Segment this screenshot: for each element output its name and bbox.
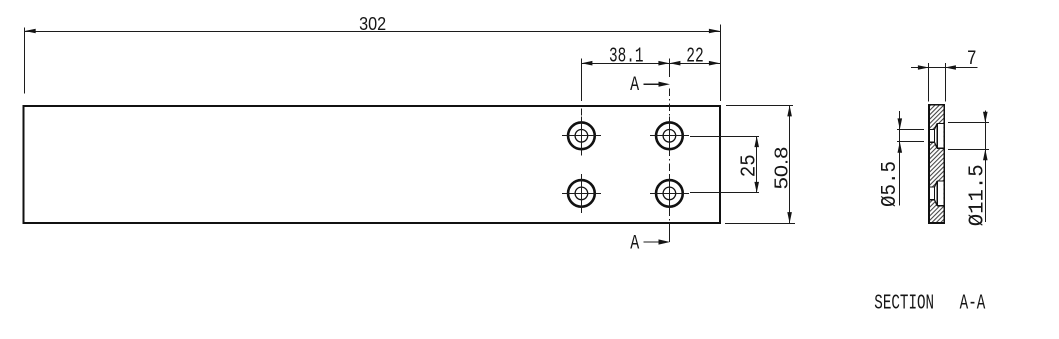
section plate hatched material (929, 105, 944, 223)
dimension 50.8: dimension line (789, 105, 791, 223)
dimension 7: arrowheads (outside) (918, 65, 929, 70)
dimension 302: left arrowhead (25, 29, 36, 34)
svg-text:SECTION A-A: SECTION A-A (874, 291, 985, 315)
svg-text:Ø11.5: Ø11.5 (965, 164, 989, 226)
dimension 50.8: arrowheads (787, 105, 792, 116)
dimension 302: dimension line (25, 31, 720, 33)
section plate outline (929, 105, 944, 223)
dimension &#216;5.5: upper extension line (897, 129, 924, 131)
dimension 22: left arrowhead (669, 61, 680, 66)
svg-text:A: A (630, 74, 639, 97)
section arrow (top) leader (643, 83, 661, 85)
dimension 7: dimension line (911, 67, 978, 69)
hole top-left inner circle (&#216;5.5) (575, 130, 588, 143)
dimension 25: upper extension line (690, 136, 759, 138)
hole bottom-right inner circle (&#216;5.5) (663, 187, 676, 200)
section upper countersunk hole (930, 123, 943, 148)
svg-text:50.8: 50.8 (771, 147, 791, 190)
dimension &#216;11.5: dimension/leader line (985, 111, 987, 223)
section lower countersunk hole (930, 181, 943, 206)
dimension 38.1: left arrowhead (581, 61, 592, 66)
dimension &#216;5.5: arrowheads (outside) (898, 118, 903, 129)
dimension 302: right arrowhead (709, 29, 720, 34)
centreline lower solid tail (669, 230, 671, 242)
dimension 302: left extension line (24, 27, 26, 93)
dimension 7: left extension line (928, 63, 930, 102)
extension segment at right hole centreline (669, 59, 671, 77)
hole bottom-left inner circle (&#216;5.5) (575, 187, 588, 200)
dimension &#216;11.5: arrowheads (outside) (983, 112, 988, 123)
hole bottom-right centermark (650, 193, 689, 195)
hole top-right inner circle (&#216;5.5) (663, 130, 676, 143)
hole bottom-left centermark (562, 193, 601, 195)
dimension 38.1: right arrowhead (658, 61, 669, 66)
hole top-left centermark (562, 135, 601, 137)
dimension 50.8: lower extension line (725, 223, 795, 225)
dimension 25: arrowheads (754, 136, 759, 147)
dimension &#216;5.5: lower extension line (897, 141, 924, 143)
section arrow (bottom) leader (644, 241, 662, 243)
svg-text:A: A (630, 233, 639, 256)
hole bottom-left outer circle (countersink &#216;11.5) (568, 180, 595, 207)
dimension 50.8: upper extension line (726, 105, 793, 107)
dimension 22: right arrowhead (709, 61, 720, 66)
dimension &#216;11.5: lower extension line (948, 149, 989, 151)
hole top-right centermark (650, 135, 689, 137)
svg-text:Ø5.5: Ø5.5 (878, 161, 902, 207)
svg-text:22: 22 (686, 44, 704, 68)
svg-text:25: 25 (738, 154, 762, 177)
cutting-plane centreline A-A (dash-dot) (669, 89, 671, 231)
hole top-left outer circle (countersink &#216;11.5) (568, 122, 595, 149)
hole bottom-right outer circle (countersink &#216;11.5) (656, 180, 683, 207)
dimension 38.1 / 22: dimension line (581, 63, 720, 65)
svg-text:302: 302 (359, 14, 386, 34)
centermark dash above top-left hole (581, 109, 583, 116)
svg-text:38.1: 38.1 (609, 44, 644, 68)
dimension 302: right extension line (720, 25, 722, 101)
dimension 25: lower extension line (690, 192, 759, 194)
dimension 25: dimension line (756, 136, 758, 193)
svg-text:7: 7 (967, 48, 977, 71)
dimension &#216;5.5: dimension/leader line (899, 111, 901, 206)
dimension 7: right extension line (945, 63, 947, 102)
hole top-right outer circle (countersink &#216;11.5) (656, 122, 683, 149)
busbar outline (24, 106, 720, 223)
dimension &#216;11.5: upper extension line (948, 122, 989, 124)
dimension 38.1: extension line at hole centreline (581, 59, 583, 101)
